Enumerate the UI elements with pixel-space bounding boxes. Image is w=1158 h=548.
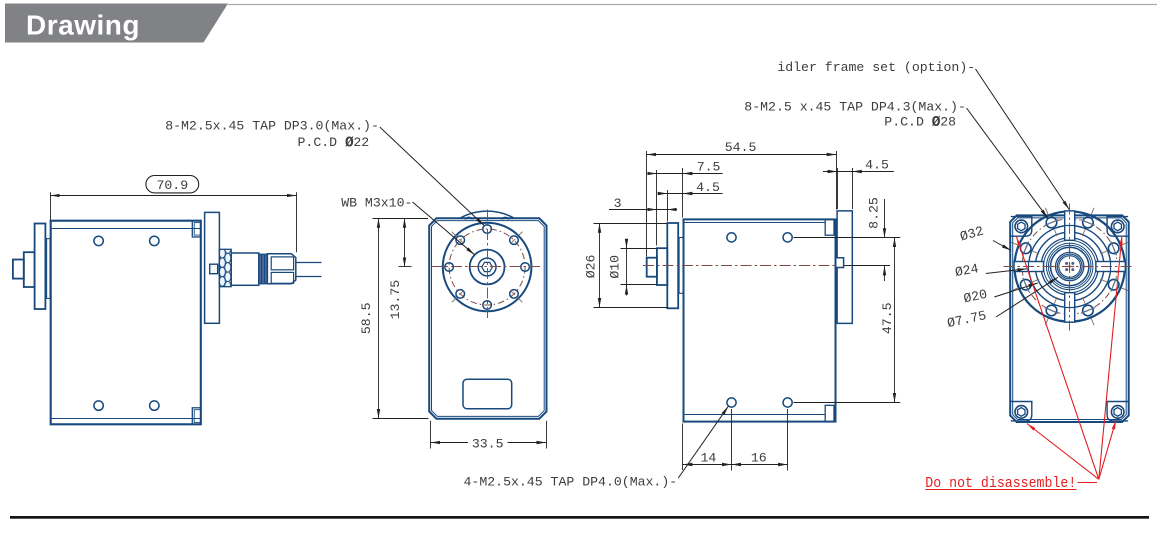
view2 gearhead boss arc	[460, 211, 514, 218]
dimension 70.9 extension lines	[50, 192, 52, 220]
view4 corner pad bottom-left	[1011, 402, 1032, 421]
dimension dia10 line	[626, 240, 628, 296]
view3 output shaft	[657, 248, 667, 285]
view2 nameplate rectangle	[463, 379, 512, 409]
view1 rear bracket plate	[205, 212, 220, 323]
svg-text:4.5: 4.5	[865, 158, 889, 173]
view4 bolt holes	[1083, 217, 1094, 228]
view3 output shaft tip	[647, 258, 657, 277]
view4 axis ticks and center cross	[1069, 246, 1071, 252]
svg-text:70.9: 70.9	[156, 178, 188, 193]
view3 top face line	[684, 222, 826, 224]
view4 body inner outline	[1013, 218, 1126, 420]
svg-text:Drawing: Drawing	[26, 10, 140, 41]
dimension dia26 line	[599, 223, 601, 307]
view1 connector prong bottom	[271, 272, 293, 283]
view1 motor body (side view)	[51, 221, 201, 425]
view2 flange bolt holes	[483, 225, 492, 234]
view2 rear tap holes above edge	[464, 218, 510, 227]
view1 bottom face line	[52, 418, 201, 420]
view4 dia24 circle	[1029, 226, 1111, 308]
view4 corner pad top-right	[1107, 217, 1128, 237]
svg-text:22: 22	[353, 135, 369, 150]
view4 slot left	[1014, 262, 1043, 272]
view4 bolt hole tangential ticks	[1081, 220, 1095, 226]
dimension 70.9 line	[50, 195, 296, 197]
dimension 7.5 line	[649, 173, 723, 175]
view2 screw hexagon	[482, 262, 493, 271]
svg-text:16: 16	[751, 450, 767, 465]
view1 bracket tab	[210, 264, 218, 274]
view4 corner pad top-left	[1011, 217, 1032, 237]
view3 case screw holes	[727, 233, 736, 242]
svg-text:3: 3	[614, 196, 622, 211]
svg-text:54.5: 54.5	[725, 140, 757, 155]
view3 centerline	[643, 265, 836, 267]
view4 dia20 circle	[1035, 232, 1104, 301]
view1 connector knurled ring	[219, 249, 231, 286]
view3 bottom face line	[684, 414, 826, 416]
svg-text:Ø10: Ø10	[608, 255, 623, 279]
view3 rear bracket	[837, 211, 852, 324]
svg-text:8.25: 8.25	[867, 197, 882, 229]
view1 output flange disc	[35, 224, 46, 310]
svg-text:28: 28	[940, 115, 956, 130]
view3 output flange disc	[667, 223, 678, 308]
svg-text:P.C.D: P.C.D	[298, 135, 338, 150]
dimension 8.25 extension line notch	[845, 265, 891, 267]
dimension 70.9 balloon	[146, 176, 199, 193]
svg-text:8-M2.5x.45 TAP DP3.0(Max.)-: 8-M2.5x.45 TAP DP3.0(Max.)-	[165, 119, 379, 134]
svg-text:4.5: 4.5	[696, 180, 720, 195]
view1 case screw holes	[94, 236, 103, 245]
view4 centerlines	[1004, 266, 1135, 268]
view4 motor body (rear view)	[1010, 215, 1128, 422]
svg-text:13.75: 13.75	[388, 280, 403, 320]
view1 corner block bottom-right	[192, 408, 201, 425]
dimension 4.5 extension line	[667, 190, 669, 222]
view4 bolt circle dashed	[1022, 219, 1117, 314]
view4 boss rings	[1041, 238, 1098, 295]
view4 spline dots	[1071, 268, 1074, 271]
view1 output shaft tip	[13, 260, 24, 279]
view1 connector end nut	[267, 254, 295, 284]
svg-text:33.5: 33.5	[472, 436, 504, 451]
view2 bolt circle dashed	[449, 229, 525, 305]
red leader lines to corner screws	[1027, 424, 1099, 480]
view1 flange spacer plates	[47, 239, 50, 299]
dimension 33.5 extension lines	[430, 421, 432, 449]
view4 radial centerline ticks at holes	[1082, 230, 1085, 236]
dimension dia10 extension lines	[621, 248, 657, 250]
svg-text:WB M3x10-: WB M3x10-	[341, 196, 412, 211]
dimension 3 line	[609, 209, 677, 211]
view2 centerlines	[432, 266, 543, 268]
dimension 13.75 line	[404, 218, 406, 267]
view3 motor body (side view 2)	[684, 219, 836, 421]
view2 body inner outline	[432, 221, 545, 417]
view4 slot crossing arcs	[1110, 262, 1112, 272]
svg-text:58.5: 58.5	[359, 302, 374, 334]
view1 connector ribbed ring	[259, 254, 268, 284]
view1 output shaft	[24, 252, 35, 287]
view1 wires	[296, 262, 322, 264]
dimension 4.5 line	[660, 193, 723, 195]
svg-text:8-M2.5 x.45 TAP DP4.3(Max.)-: 8-M2.5 x.45 TAP DP4.3(Max.)-	[744, 99, 966, 114]
svg-text:idler frame set (option)-: idler frame set (option)-	[777, 60, 975, 75]
header banner "Drawing"	[5, 4, 228, 43]
view2 diagonal hole centerline ticks	[510, 230, 523, 243]
dimension 33.5 line	[431, 442, 468, 444]
view4 slot bottom	[1065, 293, 1075, 322]
view3 corner block bottom-right	[825, 405, 834, 421]
dimension 47.5 extension lines	[794, 237, 901, 239]
dimension 14 16 line	[683, 464, 788, 466]
dimension 4.5 right line	[823, 171, 894, 173]
view2 flange circle	[443, 223, 532, 312]
view2 center boss circle	[470, 250, 505, 285]
view4 gearhead outer circle	[1014, 211, 1124, 321]
dimension 58.5 extension lines	[373, 218, 429, 220]
bottom rule bar	[10, 516, 1149, 519]
header rule line	[226, 4, 1157, 6]
dimension 47.5 line	[894, 238, 896, 403]
view4 bearing shading ring	[1057, 254, 1082, 279]
dimension 8.25 line	[884, 199, 886, 238]
dimension 7.5 extension line	[656, 170, 658, 246]
view4 slot top	[1065, 211, 1075, 240]
view4 corner pad bottom-right	[1107, 402, 1128, 421]
view2 washer circle	[478, 258, 496, 276]
view4 slot right	[1096, 262, 1125, 272]
dimension 54.5 extension lines	[646, 151, 648, 257]
view1 corner block top-right	[192, 221, 201, 237]
dimension 58.5 line	[378, 218, 380, 418]
svg-text:Ø26: Ø26	[584, 254, 599, 278]
view3 corner block top-right	[825, 219, 834, 235]
dimension 14 16 extension lines	[682, 424, 684, 471]
dimension 54.5 line	[647, 154, 837, 156]
svg-text:47.5: 47.5	[880, 302, 895, 334]
view1 top face line	[52, 228, 201, 230]
dimension 4.5 right extension lines	[837, 168, 839, 209]
svg-text:P.C.D: P.C.D	[884, 115, 924, 130]
view2 body outline	[429, 218, 546, 418]
view1 connector barrel	[231, 253, 259, 285]
svg-text:14: 14	[700, 450, 716, 465]
view4 corner screws	[1015, 220, 1028, 233]
view3 flange boss	[679, 238, 683, 294]
view1 connector prong top	[271, 257, 293, 270]
svg-text:7.5: 7.5	[697, 159, 721, 174]
dimension dia26 extension lines	[594, 223, 668, 225]
svg-text:4-M2.5x.45 TAP DP4.0(Max.)-: 4-M2.5x.45 TAP DP4.0(Max.)-	[464, 474, 678, 489]
